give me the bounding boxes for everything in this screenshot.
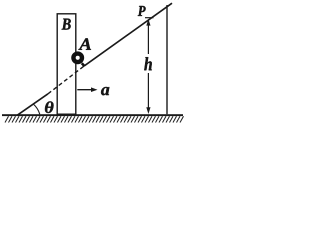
- angle arc: [33, 104, 39, 114]
- wall B rectangle: [57, 14, 76, 114]
- incline solid upper segment to apex P corner: [84, 3, 172, 66]
- right vertical line: [166, 5, 168, 114]
- incline solid lower segment: [17, 94, 48, 116]
- ground hatching: [5, 116, 184, 122]
- label B: [62, 19, 71, 30]
- label P: [138, 6, 146, 16]
- ball A (thick ring): [73, 54, 82, 63]
- label a: [101, 87, 109, 95]
- incline dashed segment (behind wall and ball): [48, 66, 84, 94]
- label A: [78, 38, 91, 49]
- label h: [144, 57, 152, 70]
- acceleration arrow: [77, 87, 97, 92]
- ground line: [2, 114, 183, 116]
- tick at P on incline: [145, 17, 154, 19]
- h arrow (double headed, broken for label): [146, 19, 150, 114]
- wire stub joining ball to incline line: [82, 63, 85, 66]
- angle label theta: [45, 101, 54, 113]
